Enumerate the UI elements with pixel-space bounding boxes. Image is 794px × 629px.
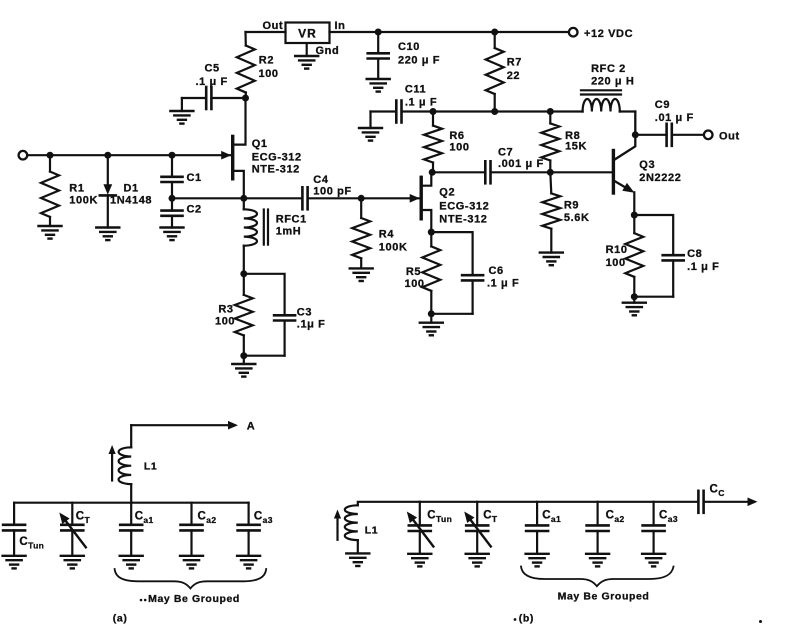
capacitor C9	[655, 99, 694, 146]
terminal Out	[704, 131, 740, 143]
svg-text:C10: C10	[398, 41, 420, 53]
capacitor C Tun variable (fig b)	[407, 502, 452, 567]
label (a)	[113, 613, 128, 625]
wire Q2 drain to C7	[433, 171, 485, 173]
svg-text:In: In	[335, 20, 346, 32]
svg-text:.1 μ F: .1 μ F	[405, 97, 437, 109]
wire input to Q1 gate	[27, 154, 231, 156]
wire Q3 emitter	[615, 181, 635, 215]
svg-text:2N2222: 2N2222	[639, 172, 681, 184]
wire +12V rail	[330, 31, 570, 33]
svg-text:CTun: CTun	[427, 510, 452, 525]
resistor R3	[215, 274, 253, 356]
node R9/base line	[547, 169, 554, 176]
diode D1 (1N4148)	[100, 155, 152, 227]
resistor R8	[541, 112, 587, 173]
wire Q3 collector	[615, 112, 636, 160]
svg-text:RFC 2: RFC 2	[591, 63, 626, 75]
capacitor C T variable (fig b)	[464, 502, 498, 567]
svg-text:Ca1: Ca1	[542, 510, 561, 525]
svg-text:CT: CT	[483, 510, 498, 525]
wire mid rail	[402, 110, 582, 112]
capacitor C a2 (fig b)	[586, 502, 624, 567]
svg-text:C1: C1	[187, 172, 202, 184]
svg-text:C4: C4	[313, 174, 329, 186]
svg-text:100: 100	[405, 278, 425, 290]
svg-text:Ca3: Ca3	[659, 510, 678, 525]
svg-text:C9: C9	[655, 99, 670, 111]
ground R9	[540, 253, 563, 266]
ground R3	[232, 356, 255, 377]
svg-text:15K: 15K	[565, 141, 587, 153]
ground VR	[295, 43, 339, 68]
ground C10	[367, 79, 390, 92]
svg-text:CC: CC	[710, 484, 725, 499]
ground D1	[96, 228, 119, 241]
capacitor C6	[431, 232, 519, 314]
bus wire (fig b)	[420, 501, 699, 503]
phase arrow (fig b)	[334, 510, 341, 540]
svg-text:(a): (a)	[113, 613, 128, 625]
capacitor C C (fig b)	[698, 484, 724, 513]
svg-text:C5: C5	[205, 63, 220, 75]
wire Q1 drain	[234, 98, 246, 145]
capacitor C a3 (fig a)	[237, 503, 273, 569]
inductor L1 (fig a)	[119, 425, 158, 503]
svg-text:C6: C6	[489, 265, 504, 277]
svg-text:Ca3: Ca3	[254, 511, 273, 526]
svg-text:+12 VDC: +12 VDC	[584, 28, 633, 40]
resistor R10	[606, 215, 644, 297]
terminal +12 VDC	[569, 28, 633, 40]
resistor R4	[352, 198, 407, 268]
wire C4 to Q2 gate	[308, 197, 420, 199]
svg-text:(b): (b)	[519, 613, 534, 625]
label In (VR input pin)	[335, 20, 346, 32]
svg-text:Out: Out	[263, 20, 284, 32]
svg-text:Q3: Q3	[639, 159, 655, 171]
transistor Q1 (JFET)	[233, 136, 302, 178]
node Q1 source/RFC1	[240, 195, 247, 202]
svg-text:1N4148: 1N4148	[110, 195, 152, 207]
svg-text:L1: L1	[365, 525, 378, 537]
svg-text:NTE-312: NTE-312	[252, 164, 300, 176]
node Q2 drain/R6/C7	[429, 169, 436, 176]
svg-text:May Be Grouped: May Be Grouped	[148, 593, 240, 605]
svg-text:Q2: Q2	[439, 187, 455, 199]
svg-text:100: 100	[606, 257, 626, 269]
node R3 bottom	[240, 352, 247, 359]
capacitor C3	[244, 274, 326, 356]
output arrow (fig b)	[704, 498, 757, 507]
node R2/C5/Q1 drain	[242, 95, 249, 102]
capacitor C4	[302, 174, 351, 209]
svg-text:C3: C3	[297, 307, 312, 319]
transistor Q3 (2N2222)	[613, 151, 681, 194]
svg-text:C11: C11	[405, 84, 426, 96]
wire Q2 source	[423, 210, 432, 232]
wire to node A with arrow	[131, 421, 255, 433]
svg-text:CTun: CTun	[19, 536, 44, 551]
label Out (VR output pin)	[263, 20, 284, 32]
node R10 bottom	[631, 293, 638, 300]
resistor R1	[41, 155, 98, 226]
node C1/C2 junction	[169, 195, 176, 202]
brace May Be Grouped (fig a)	[115, 569, 267, 588]
ground C2	[161, 228, 184, 241]
svg-text:R3: R3	[218, 304, 233, 316]
resistor R5	[405, 232, 441, 314]
svg-text:22: 22	[507, 70, 520, 82]
ground C5	[170, 98, 193, 124]
svg-text:L1: L1	[144, 461, 157, 473]
svg-text:Q1: Q1	[252, 138, 268, 150]
label May Be Grouped (fig b)	[558, 591, 650, 603]
wire Q1 source	[234, 171, 244, 198]
ground R5	[420, 314, 443, 336]
resistor R9	[542, 172, 589, 252]
svg-text:C2: C2	[187, 204, 202, 216]
wire C1/C2 to C4	[172, 197, 302, 199]
svg-text:100K: 100K	[69, 195, 98, 207]
node R5 bottom	[428, 310, 435, 317]
capacitor C a1 (fig a)	[120, 503, 154, 569]
ground C11	[359, 112, 382, 141]
svg-text:100 pF: 100 pF	[313, 186, 351, 198]
svg-text:Ca2: Ca2	[198, 511, 217, 526]
resistor R2	[237, 32, 279, 98]
speck	[759, 620, 762, 623]
ground R10	[623, 297, 646, 316]
svg-text:Out: Out	[719, 131, 740, 143]
svg-text:R9: R9	[564, 200, 579, 212]
svg-text:220 μ H: 220 μ H	[591, 76, 634, 88]
svg-text:ECG-312: ECG-312	[439, 201, 489, 213]
node C10/rail	[375, 29, 382, 36]
svg-text:100: 100	[215, 316, 235, 328]
svg-text:R1: R1	[69, 183, 84, 195]
gate arrow Q2	[410, 194, 420, 203]
svg-text:R10: R10	[606, 244, 628, 256]
ground R4	[350, 268, 373, 281]
svg-text:R6: R6	[449, 130, 464, 142]
svg-text:.1 μ F: .1 μ F	[687, 261, 719, 273]
node RFC1/R3/C3	[240, 270, 247, 277]
resistor R6	[424, 112, 470, 173]
svg-text:Ca1: Ca1	[135, 511, 154, 526]
svg-text:100K: 100K	[379, 242, 408, 254]
svg-text:R2: R2	[259, 55, 274, 67]
capacitor C T variable (fig a)	[59, 503, 90, 569]
svg-text:C8: C8	[687, 248, 702, 260]
capacitor C Tun (fig a)	[3, 503, 45, 569]
svg-text:NTE-312: NTE-312	[439, 214, 487, 226]
svg-text:VR: VR	[298, 27, 317, 41]
svg-text:RFC1: RFC1	[276, 214, 307, 226]
svg-text:100: 100	[259, 68, 279, 80]
capacitor C7	[485, 147, 543, 184]
capacitor C11	[371, 84, 438, 123]
label May Be Grouped (fig a)	[140, 593, 240, 605]
node R7/rail	[491, 29, 498, 36]
capacitor C a3 (fig b)	[642, 502, 678, 567]
gate arrow Q1	[221, 151, 231, 160]
wire collector to C9	[635, 134, 666, 136]
capacitor C5	[182, 63, 246, 110]
label (b)	[514, 613, 534, 625]
capacitor C a2 (fig a)	[180, 503, 216, 569]
wire C9 to Out	[672, 134, 704, 136]
node R7/mid-rail	[491, 108, 498, 115]
svg-text:May Be Grouped: May Be Grouped	[558, 591, 650, 603]
node D1/input	[104, 152, 111, 159]
node Q2 source/R5/C6	[428, 229, 435, 236]
capacitor C8	[634, 215, 719, 297]
inductor RFC1	[244, 198, 307, 273]
node R1/input	[47, 152, 54, 159]
svg-text:5.6K: 5.6K	[564, 212, 590, 224]
wire VR out to R2 top	[246, 31, 286, 33]
svg-text:.1 μ F: .1 μ F	[196, 76, 228, 88]
capacitor C a1 (fig b)	[526, 502, 562, 567]
svg-text:.1μ F: .1μ F	[297, 319, 326, 331]
inductor L1 (fig b)	[345, 502, 420, 566]
svg-text:R7: R7	[507, 57, 522, 69]
capacitor C1	[162, 155, 202, 198]
bus wire (fig a)	[14, 502, 249, 504]
node R4/line	[358, 195, 365, 202]
svg-text:R5: R5	[406, 266, 421, 278]
brace May Be Grouped (fig b)	[521, 567, 674, 587]
wire R3/C3 bottom	[244, 355, 285, 357]
wire Q2 drain	[423, 172, 432, 185]
svg-text:A: A	[247, 421, 256, 433]
svg-text:220 μ F: 220 μ F	[398, 55, 440, 67]
phase arrow (fig a)	[109, 445, 116, 481]
node C9/collector	[632, 131, 639, 138]
node R6/rail	[430, 108, 437, 115]
svg-text:1mH: 1mH	[276, 226, 302, 238]
node emitter/R10/C8	[631, 212, 638, 219]
voltage regulator VR	[286, 23, 330, 44]
capacitor C2	[162, 198, 202, 227]
node C1/input	[169, 152, 176, 159]
svg-text:.001 μ F: .001 μ F	[498, 158, 544, 170]
svg-text:ECG-312: ECG-312	[252, 152, 302, 164]
transistor Q2 (JFET)	[421, 177, 489, 225]
node R8/rail	[547, 108, 554, 115]
capacitor C10	[368, 32, 440, 79]
svg-text:.1 μ F: .1 μ F	[487, 278, 519, 290]
svg-text:C7: C7	[498, 147, 513, 159]
svg-text:100: 100	[449, 142, 469, 154]
input terminal	[19, 151, 28, 160]
svg-text:Gnd: Gnd	[316, 45, 340, 57]
svg-text:CT: CT	[76, 511, 91, 526]
resistor R7	[486, 32, 522, 112]
wire C7 to Q3 base	[491, 171, 612, 173]
svg-text:R4: R4	[379, 229, 395, 241]
inductor RFC2	[581, 63, 635, 112]
svg-text:.01 μ F: .01 μ F	[655, 112, 694, 124]
ground R1	[39, 226, 62, 239]
svg-text:Ca2: Ca2	[606, 510, 625, 525]
svg-text:D1: D1	[124, 183, 139, 195]
